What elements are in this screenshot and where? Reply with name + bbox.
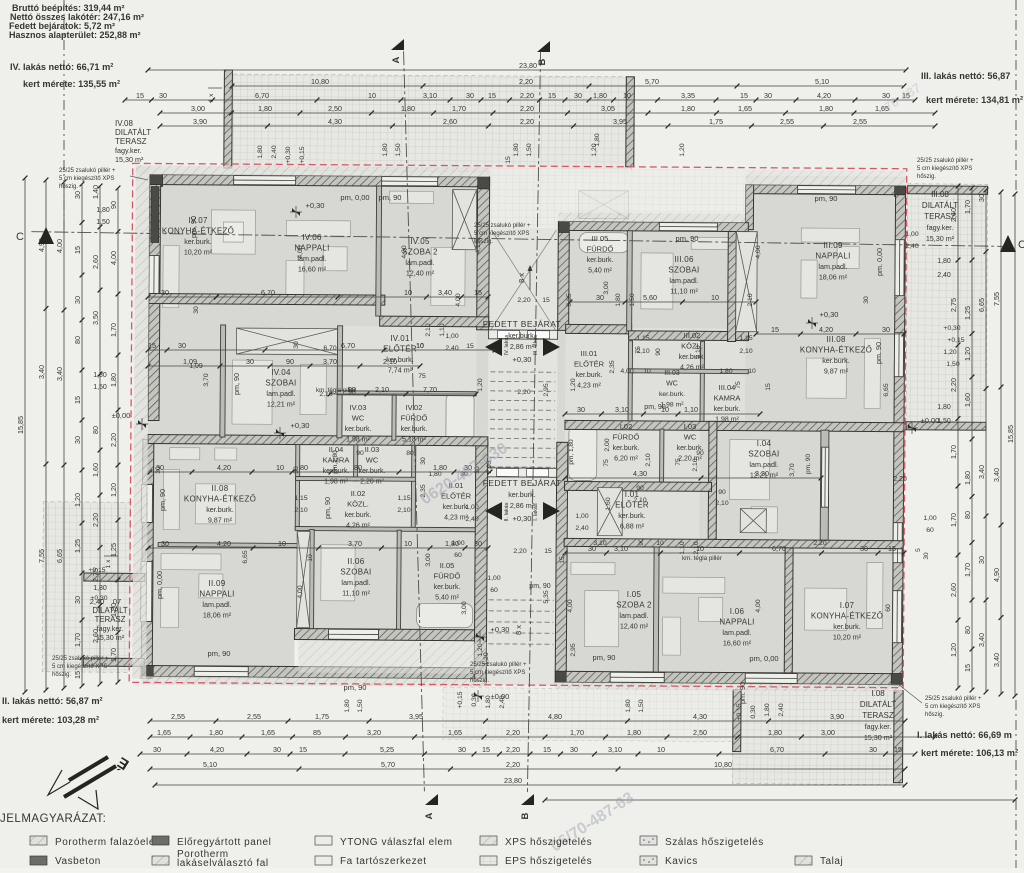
terrace IV.08 east stub <box>626 77 635 167</box>
property dashed line right-top vertical <box>1015 0 1017 190</box>
wall: unit II south <box>146 665 486 678</box>
walkway bottom-center grid <box>443 688 733 742</box>
terrace I.08 east stub <box>893 691 903 783</box>
partition II.06/II.05 <box>397 530 402 629</box>
dim col right 4 <box>999 190 1004 697</box>
scan noise overlay <box>0 0 1 1</box>
insulation strip bottom II <box>141 676 486 686</box>
lintel panel above corridor IV <box>236 328 338 355</box>
dim col right 2 <box>970 186 975 693</box>
bathtub I.02 <box>569 425 597 480</box>
panel: IV west <box>151 186 159 242</box>
dim col right 1 <box>956 184 961 691</box>
porch hatch below unit II east <box>298 641 486 674</box>
wall: unit II west <box>141 439 154 678</box>
dim col left 5 <box>98 184 103 687</box>
dim col right 3 <box>984 188 989 695</box>
wall: unit III step vertical <box>745 185 753 230</box>
dim row top 0 <box>146 68 909 73</box>
partition II.08/II.09 (open) <box>158 543 298 548</box>
window IV.07 west <box>149 255 159 301</box>
dim interior II row2 <box>148 470 493 475</box>
wardrobe I.01 <box>597 488 622 536</box>
wall: unit IV north <box>150 174 490 186</box>
dim row bottom 5 <box>153 783 908 788</box>
central breezeway fill <box>486 166 559 685</box>
wall: breezeway west upper <box>477 189 490 330</box>
section marker B bottom <box>521 794 534 805</box>
entry doors bottom <box>488 468 557 477</box>
section marker B top <box>537 41 550 52</box>
entry doors top <box>489 330 558 339</box>
insulation strip bottom I <box>555 682 902 691</box>
partition IV.06/IV.05 <box>376 186 382 316</box>
partition III WC north <box>628 369 748 374</box>
wall: unit III north-west <box>558 221 748 231</box>
bathtub II.05 <box>417 603 473 627</box>
section line A <box>398 51 429 791</box>
dim interior IV.01 <box>328 392 479 397</box>
wall: unit III north-east <box>746 185 906 195</box>
dim row top 2 <box>123 98 918 103</box>
terrace III.08 south stub <box>906 422 986 431</box>
partition IV.03/IV.02 <box>392 395 396 440</box>
dim interior II <box>146 546 491 551</box>
window I.04 east <box>893 523 902 563</box>
dim interior III row3 <box>563 412 763 417</box>
lintel above III bath <box>578 190 628 218</box>
section line B <box>527 52 540 792</box>
dim col left 6 <box>116 186 121 685</box>
window panel I.04 <box>821 447 828 507</box>
wall: unit II south-east raised <box>294 628 486 640</box>
wall: unit I south <box>555 671 902 684</box>
window II.08 west <box>141 484 152 522</box>
dim col left 1 <box>23 176 28 695</box>
terrace IV.08 top-left grid <box>226 74 633 173</box>
dim interior I <box>563 551 907 556</box>
dim col right 5 <box>1013 192 1018 699</box>
section marker A top <box>391 39 404 50</box>
wall: I.02 south <box>565 481 712 491</box>
insulation strip top IV <box>136 165 490 176</box>
furniture unit III <box>579 232 629 252</box>
wall: I.07 west <box>784 548 793 673</box>
dim row bottom 6 <box>543 798 1018 803</box>
partition II.06 west <box>309 530 315 629</box>
property dashed line right vertical <box>1015 700 1017 868</box>
wall: III.06 east <box>728 232 737 342</box>
legend row 2 <box>30 856 47 865</box>
wall: III.06 south <box>629 331 749 341</box>
building block left (units IV + II) fill <box>146 174 490 680</box>
partition III.01/III.03 <box>628 341 633 421</box>
insulation strip top III east <box>746 176 906 186</box>
partition II hall east <box>411 445 416 530</box>
dim row top 1 <box>230 84 907 89</box>
partition II.04 south <box>296 476 416 481</box>
partition II.02 south <box>295 526 475 531</box>
window III.06 north <box>659 223 717 231</box>
entry arrow left bottom <box>485 502 502 520</box>
wall: east <box>892 195 905 686</box>
dim interior III <box>568 300 759 305</box>
shaft panel IV east <box>452 190 476 250</box>
wardrobe wall II.06 <box>297 532 311 628</box>
window III.09 north <box>798 185 856 193</box>
wall: III/I separation <box>565 420 904 431</box>
shaft panel III <box>736 232 758 332</box>
pillar at breezeway NE <box>558 221 569 232</box>
pillar unit IV NE <box>478 177 490 189</box>
dim row bottom 4 <box>148 767 908 772</box>
window I.06 south <box>745 673 797 683</box>
terrace I.08 west stub <box>733 690 741 752</box>
window III.09 east <box>895 240 904 296</box>
terrace II.07 bottom-left grid <box>42 502 130 673</box>
partition III.03/III.04 <box>700 341 705 421</box>
window II.09 west <box>141 561 152 621</box>
partition IV.01 south <box>337 391 476 396</box>
partition I.04 east <box>820 430 829 540</box>
breezeway ramp treads <box>488 372 555 644</box>
breezeway diagonal guides <box>491 230 557 330</box>
property dashed line top-left vertical <box>63 0 65 232</box>
pillar NE corner <box>895 186 906 197</box>
wall: I.03/I.04 <box>708 421 717 539</box>
furniture unit IV <box>163 246 179 308</box>
window III.08 east <box>894 333 903 377</box>
terrace arm above unit III west <box>558 168 745 213</box>
terrace III.08 north stub <box>908 186 988 195</box>
wall: IV.05 south <box>380 316 489 327</box>
section marker C left <box>38 227 54 244</box>
terrace I.08 bottom-right grid <box>732 690 900 785</box>
dim col left 4 <box>80 182 85 689</box>
wall: breezeway west lower <box>474 442 488 681</box>
wall: III.05 south <box>566 324 632 333</box>
window IV.07/IV.06 north <box>234 176 296 185</box>
dim row bottom 3 <box>138 752 918 757</box>
dim row top 3 <box>158 111 938 116</box>
terrace II.07 south stub <box>83 658 144 666</box>
pillar SE corner <box>891 674 902 685</box>
dim interior IV <box>146 295 491 300</box>
partition II.04/II.03 <box>354 445 358 481</box>
window I.07 east <box>892 591 901 643</box>
dim row bottom 1 <box>148 719 908 724</box>
wall: breezeway east lower <box>555 442 568 671</box>
red dashed envelope <box>129 163 907 687</box>
insulation strip left <box>132 165 150 678</box>
bathtub IV.02 <box>446 394 474 444</box>
terrace III.08 top-right grid <box>906 184 988 431</box>
section marker C right <box>1000 235 1016 252</box>
window II.06 south <box>328 629 378 639</box>
partition III.05/III.06 <box>627 231 633 331</box>
partition I.05/I.06 <box>653 547 659 672</box>
window II.09 south <box>194 666 248 676</box>
window IV.05 north <box>382 177 438 186</box>
section marker A bottom <box>425 794 438 805</box>
pillar NW corner <box>150 174 163 186</box>
terrace II.07 north stub <box>84 573 145 581</box>
partition I.02/I.03 <box>660 429 664 484</box>
partition II hall west <box>295 444 300 529</box>
dim row top 4 <box>158 124 938 129</box>
entry arrow left top <box>485 338 502 356</box>
section line C <box>31 232 1011 247</box>
dim interior III.08 <box>754 332 907 337</box>
pillar at breezeway SW <box>555 671 566 682</box>
north arrow <box>48 757 116 809</box>
partition IV.04/IV.01 <box>337 326 343 438</box>
wall: IV.07/IV.06 south <box>149 293 385 305</box>
wall: unit IV west <box>148 184 161 420</box>
wall: IV/II separation <box>148 434 488 445</box>
entry arrow right bottom <box>543 502 560 520</box>
entry arrow right top <box>543 338 560 356</box>
terrace IV.08 west stub <box>224 70 233 168</box>
dim interior I.02 row <box>563 476 824 481</box>
dim interior IV row2 <box>146 348 498 353</box>
insulation strip top III west <box>558 212 745 222</box>
closet I.04 <box>740 509 766 533</box>
window I.05 south <box>610 672 664 682</box>
pillar SW corner <box>141 665 153 677</box>
partition IV.04 west <box>220 325 226 437</box>
legend row 1 <box>30 836 47 845</box>
furniture unit II <box>170 448 200 460</box>
wall: I bedrooms north <box>564 538 903 548</box>
building block right (units III + I) fill <box>555 183 905 684</box>
dim interior IV.04 <box>146 364 423 369</box>
dim col left 3 <box>62 180 67 691</box>
wall: breezeway east upper <box>558 232 570 330</box>
dim row bottom 2 <box>148 735 938 740</box>
dim col left 2 <box>44 178 49 693</box>
terrace arm above unit III east <box>746 170 906 179</box>
